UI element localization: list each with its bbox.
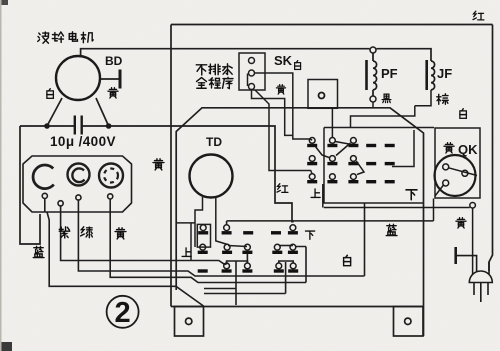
svg-text:2: 2	[115, 297, 131, 329]
svg-text:QK: QK	[458, 142, 478, 157]
svg-text:TD: TD	[206, 135, 222, 149]
svg-text:JF: JF	[437, 66, 452, 81]
svg-text:SK: SK	[274, 53, 293, 68]
svg-text:BD: BD	[105, 54, 123, 68]
svg-text:PF: PF	[381, 66, 398, 81]
svg-text:10μ /400V: 10μ /400V	[50, 134, 116, 149]
